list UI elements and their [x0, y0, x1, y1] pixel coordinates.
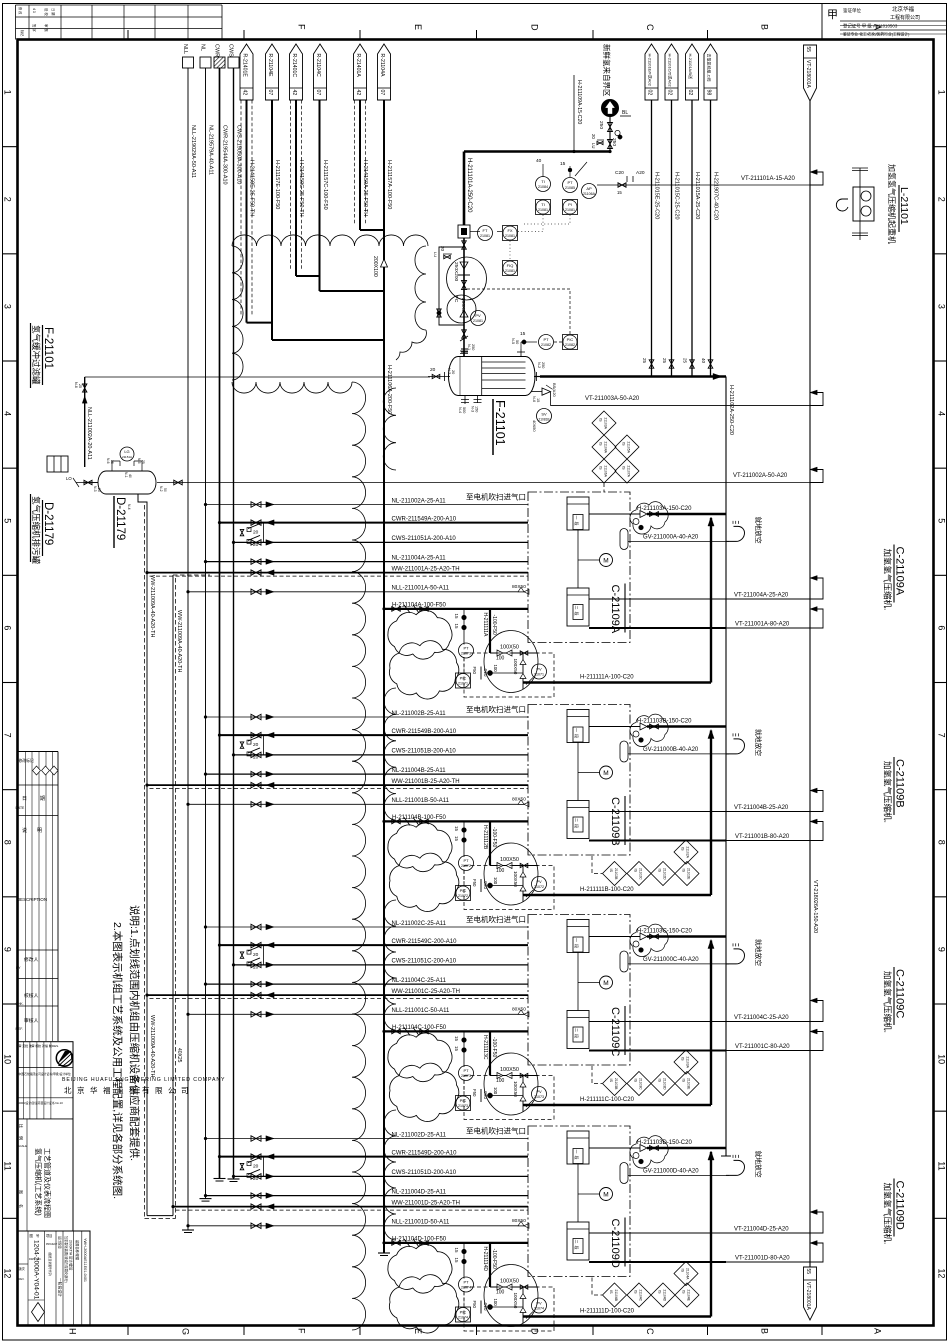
revision cloud module C	[388, 1033, 538, 1122]
svg-text:4 3: 4 3	[32, 8, 36, 13]
instrument PT-21085	[563, 178, 578, 193]
svg-text:NL-211004D-25-A11: NL-211004D-25-A11	[392, 1189, 447, 1195]
svg-text:42: 42	[291, 90, 297, 96]
auxiliary dashed box module A	[464, 653, 554, 697]
compressor module C-21109A	[0, 0, 1, 1]
svg-text:100X50: 100X50	[513, 659, 518, 675]
svg-text:IS: IS	[599, 418, 603, 422]
svg-text:21081: 21081	[505, 234, 515, 238]
svg-text:200X100: 200X100	[372, 256, 378, 277]
svg-text:F50: F50	[472, 1089, 477, 1097]
svg-text:F50: F50	[472, 1301, 477, 1309]
svg-text:IS: IS	[609, 1079, 613, 1083]
svg-text:F-21101: F-21101	[42, 327, 54, 369]
svg-text:15: 15	[454, 614, 459, 620]
svg-text:LU: LU	[591, 143, 596, 149]
reducer 80X50 module B	[512, 797, 529, 807]
local vent hook C	[726, 939, 763, 966]
svg-text:10: 10	[937, 1054, 947, 1064]
svg-text:21072: 21072	[461, 864, 471, 868]
svg-text:21084: 21084	[538, 185, 548, 189]
svg-text:FIQ: FIQ	[507, 263, 514, 268]
pipe from R-21401A	[355, 100, 385, 230]
motor M D	[578, 1188, 613, 1201]
relief SV-21081B	[531, 383, 557, 432]
pipe NLL-211001B-50-A11	[187, 798, 529, 807]
svg-text:25: 25	[683, 358, 688, 364]
svg-text:21073: 21073	[461, 1074, 471, 1078]
svg-text:100: 100	[496, 1078, 505, 1084]
svg-text:一: 一	[574, 516, 579, 520]
pipe WW-211001C-25-A20-TH	[146, 989, 529, 999]
auxiliary dashed box module C	[464, 1076, 554, 1120]
svg-text:IS: IS	[681, 1057, 685, 1061]
vessel D-21179 tag	[114, 496, 126, 548]
svg-text:N-1: N-1	[124, 472, 128, 478]
svg-text:4: 4	[937, 411, 947, 416]
svg-text:80X50: 80X50	[512, 1007, 526, 1013]
instrument PT-21083 loop	[520, 331, 537, 349]
cloud at discharge valve D	[630, 1136, 668, 1168]
pipe VT-211001B-80-A20	[589, 819, 823, 840]
svg-text:C-21109A: C-21109A	[894, 547, 906, 596]
svg-text:21081: 21081	[565, 208, 575, 212]
svg-text:20: 20	[430, 367, 436, 373]
svg-text:21102D: 21102D	[663, 868, 667, 880]
svg-text:H-211111D-100-C20: H-211111D-100-C20	[580, 1309, 635, 1315]
svg-text:21104A: 21104A	[686, 1268, 690, 1280]
svg-text:C-21109D: C-21109D	[609, 1219, 621, 1268]
svg-text:25: 25	[97, 488, 101, 492]
svg-text:21081B: 21081B	[539, 418, 550, 422]
flange break to drum	[460, 336, 468, 352]
fresh hydrogen battery limit arrow	[602, 44, 632, 117]
instrument PV-21073	[526, 1087, 547, 1108]
svg-text:21103A: 21103A	[686, 1057, 690, 1069]
svg-text:40X25: 40X25	[176, 1048, 182, 1063]
svg-text:21081: 21081	[473, 319, 483, 323]
svg-text:R-21104C: R-21104C	[315, 54, 321, 78]
cooling water bypass valves module A	[240, 523, 263, 548]
inlet valves	[591, 117, 622, 154]
drum nozzles	[428, 338, 545, 413]
revision cloud module A	[388, 610, 538, 699]
svg-text:21074: 21074	[461, 1286, 471, 1290]
svg-text:比: 比	[19, 1124, 25, 1128]
utility header NLL	[182, 44, 194, 68]
svg-text:R-21401A: R-21401A	[355, 54, 361, 78]
revision cloud module D	[388, 1244, 538, 1333]
hoist L-21101	[836, 168, 874, 240]
svg-text:IS: IS	[682, 1079, 686, 1083]
svg-text:21082: 21082	[541, 343, 551, 347]
svg-text:2000KT/A 设计/建设: 2000KT/A 设计/建设	[69, 1240, 74, 1271]
svg-text:PI: PI	[568, 202, 572, 207]
cloud at discharge valve C	[630, 924, 668, 956]
instrument PV-21072	[526, 877, 547, 898]
unit label C-21109C right	[883, 967, 906, 1033]
reducer 80X50 module D	[512, 1218, 529, 1228]
svg-text:PT: PT	[463, 858, 469, 863]
svg-text:21082: 21082	[565, 343, 575, 347]
utility header CWR	[214, 44, 226, 68]
svg-text:IS: IS	[682, 1290, 686, 1294]
svg-text:NL-211002A-25-A11: NL-211002A-25-A11	[392, 498, 447, 504]
svg-text:PT: PT	[543, 337, 549, 342]
pipe NL-211002C-25-A11	[204, 921, 528, 930]
pipe from R-21401C	[291, 100, 320, 276]
svg-text:AP: AP	[586, 186, 592, 191]
pipe NL-211002D-25-A11	[204, 1132, 528, 1141]
svg-text:250X200: 250X200	[453, 262, 459, 282]
svg-text:名: 名	[19, 1204, 25, 1208]
svg-text:北京华福: 北京华福	[892, 5, 915, 13]
pipe H-211104C-100-F50	[383, 1025, 529, 1036]
svg-text:5: 5	[937, 518, 947, 523]
revision strip table bottom-left	[16, 752, 59, 1042]
svg-text:VT-211101A-15-A20: VT-211101A-15-A20	[741, 176, 795, 182]
pipe NL-211002A-25-A11	[204, 498, 528, 507]
svg-text:号: 号	[36, 1233, 40, 1238]
svg-text:CWS-211051A-200-A10: CWS-211051A-200-A10	[392, 536, 457, 542]
svg-text:100X50: 100X50	[500, 645, 519, 651]
D-21179 bottom drain	[124, 472, 138, 510]
svg-text:IS: IS	[658, 1079, 662, 1083]
svg-text:NLL-211002A-20-A11: NLL-211002A-20-A11	[86, 407, 92, 460]
svg-text:加氢氢气压缩机.: 加氢氢气压缩机.	[883, 971, 893, 1033]
svg-text:15: 15	[617, 190, 622, 195]
motor M A	[578, 554, 613, 567]
safety diamonds group F-21101	[592, 411, 639, 492]
svg-text:中国石化集团公司设计证书(甲级)设计单位: 中国石化集团公司设计证书(甲级)设计单位	[19, 1072, 71, 1076]
WW drain riser 2	[173, 575, 210, 1219]
pipe H-211103A-150-C20	[589, 506, 726, 518]
svg-text:100X50: 100X50	[500, 857, 519, 863]
svg-text:段: 段	[574, 612, 580, 616]
svg-text:7: 7	[3, 733, 13, 738]
svg-text:FX: FX	[507, 228, 512, 233]
svg-text:PT: PT	[463, 646, 469, 651]
cooling water bypass valves module B	[240, 735, 263, 760]
svg-text:150: 150	[475, 406, 479, 412]
svg-text:IS: IS	[634, 869, 638, 873]
svg-text:20: 20	[253, 742, 259, 748]
svg-text:(图纸目录图号代字): (图纸目录图号代字)	[48, 1252, 52, 1276]
svg-text:55: 55	[805, 47, 811, 53]
svg-text:VT-218001A: VT-218001A	[805, 60, 811, 88]
pipe VT-211003A-50-A20	[551, 390, 824, 406]
svg-text:100X50: 100X50	[513, 1081, 518, 1097]
svg-text:H-214159E-25-F50-TH: H-214159E-25-F50-TH	[249, 160, 255, 216]
machine tag C-21109B	[609, 796, 625, 846]
svg-text:至电机吹扫进气口: 至电机吹扫进气口	[466, 492, 526, 502]
flow orifice FE-21081	[458, 225, 480, 238]
pipe NL-211004D-25-A11	[204, 1189, 528, 1198]
pipe NLL-211002A F-21101 to D-21179	[74, 377, 446, 467]
svg-text:VT-211004D-25-A20: VT-211004D-25-A20	[734, 1227, 789, 1233]
svg-text:图: 图	[30, 1234, 34, 1238]
svg-text:21103B: 21103B	[614, 1078, 618, 1090]
svg-text:VT-218026A-150-A20: VT-218026A-150-A20	[812, 880, 818, 933]
svg-text:NL-219579A-40-A11: NL-219579A-40-A11	[208, 125, 214, 175]
svg-text:E: E	[413, 24, 423, 30]
drop line labels	[654, 172, 719, 220]
svg-text:21103D: 21103D	[663, 1078, 667, 1090]
svg-text:DATE: DATE	[16, 806, 26, 810]
svg-text:H-211111A-100-C20: H-211111A-100-C20	[580, 675, 634, 681]
VT header pipe	[810, 101, 818, 1267]
pipe H-211111A-100-C20	[523, 517, 714, 683]
svg-text:VT-211002A-50-A20: VT-211002A-50-A20	[733, 473, 788, 479]
pipe H-211103D-150-C20	[589, 1140, 726, 1152]
CWR header pipe	[214, 68, 226, 1181]
svg-text:21081: 21081	[505, 269, 515, 273]
cooling water bypass valves module D	[240, 1157, 263, 1182]
instrument PIC-21082	[563, 335, 578, 350]
NLL header pipe	[182, 68, 194, 1233]
svg-text:H-211113C: H-211113C	[482, 1035, 488, 1060]
svg-text:TI: TI	[541, 179, 545, 184]
svg-text:H-211101A-250-C20: H-211101A-250-C20	[466, 158, 472, 213]
svg-text:签 字: 签 字	[32, 24, 37, 32]
svg-text:鉴证单位: 鉴证单位	[843, 7, 861, 14]
svg-text:2004(设计)建设项目设计证书 No.10: 2004(设计)建设项目设计证书 No.10	[19, 1101, 64, 1105]
svg-text:NL: NL	[200, 44, 206, 51]
svg-text:M: M	[603, 558, 608, 565]
svg-text:B: B	[759, 24, 769, 30]
svg-text:加氢裂化装置(渣油加氢裂化部分): 加氢裂化装置(渣油加氢裂化部分)	[64, 1236, 69, 1283]
flag line labels	[249, 160, 393, 217]
svg-text:IS: IS	[658, 869, 662, 873]
svg-text:校 对: 校 对	[38, 1043, 45, 1048]
svg-text:21072: 21072	[458, 894, 468, 898]
svg-text:07: 07	[379, 90, 385, 96]
svg-text:15: 15	[454, 1046, 459, 1052]
pipe CWS-211051B-200-A10	[232, 749, 528, 758]
svg-text:二: 二	[574, 818, 579, 822]
svg-text:PV: PV	[475, 313, 481, 318]
svg-text:9: 9	[3, 947, 13, 952]
svg-text:40X50: 40X50	[532, 420, 537, 432]
svg-text:80X50: 80X50	[512, 584, 526, 590]
svg-text:修 改: 修 改	[18, 7, 23, 15]
svg-text:二: 二	[574, 1240, 579, 1244]
package boundary C-21109B	[528, 705, 630, 856]
svg-text:21081: 21081	[538, 208, 548, 212]
svg-text:PT: PT	[567, 180, 573, 185]
svg-text:N-5: N-5	[511, 338, 515, 344]
instrument branch PT-21071	[454, 609, 474, 688]
svg-text:明: 明	[37, 828, 42, 834]
svg-text:PT: PT	[463, 1068, 469, 1073]
svg-text:H: H	[67, 1328, 77, 1335]
svg-text:L-21101: L-21101	[898, 187, 910, 225]
svg-text:100: 100	[493, 877, 498, 885]
flag VT-218001A bottom	[804, 1267, 817, 1320]
svg-text:H-21101E/F送A02: H-21101E/F送A02	[647, 54, 653, 87]
svg-text:IS: IS	[609, 1290, 613, 1294]
svg-text:IS: IS	[609, 869, 613, 873]
gauge LG-21151A	[106, 447, 145, 471]
svg-text:98: 98	[706, 90, 712, 96]
svg-text:H-211111C-100-C20: H-211111C-100-C20	[580, 1097, 635, 1103]
instrument branch PT-21074	[454, 1243, 474, 1322]
pipe VT-211004D-25-A20	[589, 1210, 823, 1233]
svg-text:至电机吹扫进气口: 至电机吹扫进气口	[466, 914, 526, 924]
svg-text:15: 15	[454, 1036, 459, 1042]
revision cloud module B	[388, 823, 538, 912]
package boundary C-21109C	[528, 915, 630, 1066]
svg-text:设计阶段: 设计阶段	[58, 1236, 63, 1250]
svg-text:50: 50	[163, 488, 167, 492]
svg-text:H-211103B-150-C20: H-211103B-150-C20	[637, 719, 692, 725]
pipe from R-21401E	[241, 100, 272, 323]
svg-text:21102E: 21102E	[687, 868, 691, 880]
svg-text:例: 例	[19, 1136, 25, 1140]
svg-text:至电机吹扫进气口: 至电机吹扫进气口	[466, 1126, 526, 1136]
instrument FX-21081	[503, 226, 518, 241]
svg-text:1204-2000A-Y04-01: 1204-2000A-Y04-01	[33, 1240, 40, 1300]
svg-text:M: M	[603, 980, 608, 987]
svg-text:02: 02	[667, 90, 673, 96]
svg-text:修改标记: 修改标记	[19, 758, 34, 763]
svg-text:说: 说	[22, 827, 27, 834]
svg-text:21104E: 21104E	[687, 1290, 691, 1302]
svg-text:F: F	[297, 24, 307, 30]
svg-text:VT-211001A-80-A20: VT-211001A-80-A20	[735, 622, 790, 628]
svg-text:21104D: 21104D	[663, 1290, 667, 1302]
svg-text:21103E: 21103E	[687, 1078, 691, 1090]
pipe H-211104A-100-F50	[383, 602, 529, 613]
svg-text:9: 9	[937, 947, 947, 952]
compressor cylinder stage1 A	[567, 497, 589, 530]
pipe H-211101A-250-C20	[464, 152, 610, 226]
svg-text:段: 段	[574, 944, 580, 948]
svg-text:工艺管道及仪表流程图: 工艺管道及仪表流程图	[43, 1148, 52, 1218]
svg-text:25: 25	[662, 358, 667, 364]
compressor module C-21109C	[0, 0, 1, 1]
svg-text:R-21401C: R-21401C	[291, 54, 297, 78]
svg-text:审核人: 审核人	[24, 1017, 39, 1024]
svg-text:加氢氢气压缩机.: 加氢氢气压缩机.	[883, 549, 893, 611]
pipe CWR-211549A-200-A10	[218, 516, 528, 525]
svg-text:DES.: DES.	[52, 1044, 59, 1048]
title block bottom-left	[18, 1042, 91, 1326]
svg-text:D: D	[529, 24, 539, 31]
instrument branch PT-21073	[454, 1031, 474, 1110]
flag H-21101A/B	[686, 44, 699, 100]
svg-text:登记证号 甲 级 A111010503: 登记证号 甲 级 A111010503	[843, 23, 898, 30]
vent line GV-211000B	[620, 731, 729, 762]
pipe VT-211004A-25-A20	[589, 576, 823, 599]
pipe to VT-211101A	[597, 170, 823, 195]
svg-text:15: 15	[454, 624, 459, 630]
svg-text:H-211112B: H-211112B	[482, 825, 488, 850]
svg-text:02: 02	[687, 90, 693, 96]
svg-text:H-211015A-25-C20: H-211015A-25-C20	[694, 172, 700, 219]
flag R-21104E	[266, 44, 279, 100]
svg-text:项目: 项目	[46, 1234, 52, 1238]
machine tag C-21109C	[609, 1006, 625, 1056]
3-cell box marker	[47, 456, 68, 472]
svg-text:H-211111B-100-C20: H-211111B-100-C20	[580, 887, 634, 893]
svg-text:B: B	[759, 1328, 769, 1334]
notes text	[111, 905, 141, 1199]
svg-text:25: 25	[78, 384, 82, 388]
svg-text:N-4: N-4	[127, 504, 131, 510]
svg-text:21104B: 21104B	[614, 1290, 618, 1302]
svg-text:21102A: 21102A	[686, 847, 690, 859]
svg-text:就地放空: 就地放空	[754, 1151, 763, 1178]
crankshaft line D	[577, 1164, 579, 1222]
svg-text:设 校: 设 校	[44, 8, 49, 16]
vessel F-21101	[449, 357, 536, 396]
svg-text:20: 20	[253, 1164, 259, 1170]
unit label C-21109D right	[883, 1179, 906, 1245]
svg-text:2: 2	[937, 197, 947, 202]
svg-text:一阶段设计: 一阶段设计	[58, 1278, 63, 1297]
pipe CWR-211549C-200-A10	[218, 939, 528, 948]
svg-text:NLL-211001D-50-A11: NLL-211001D-50-A11	[392, 1220, 450, 1226]
svg-text:07: 07	[315, 90, 321, 96]
control valve station 250X200	[447, 238, 487, 356]
svg-text:编 制: 编 制	[45, 1043, 52, 1048]
svg-text:CWS-211051D-200-A10: CWS-211051D-200-A10	[392, 1170, 457, 1176]
svg-text:7: 7	[937, 733, 947, 738]
svg-text:250: 250	[598, 121, 604, 129]
svg-text:PROJECT: PROJECT	[46, 1243, 58, 1246]
svg-text:H-211103A-150-C20: H-211103A-150-C20	[637, 506, 692, 512]
svg-text:VT-211004C-25-A20: VT-211004C-25-A20	[734, 1015, 789, 1021]
svg-text:15: 15	[454, 826, 459, 832]
svg-text:21104A: 21104A	[604, 442, 608, 454]
svg-text:50: 50	[515, 340, 519, 344]
svg-text:REF.: REF.	[16, 1027, 23, 1031]
svg-text:N-6: N-6	[532, 396, 536, 402]
svg-text:100: 100	[493, 665, 498, 673]
svg-text:WW-211001C-25-A20-TH: WW-211001C-25-A20-TH	[392, 989, 460, 995]
svg-text:LU: LU	[433, 252, 438, 257]
svg-text:段: 段	[574, 522, 580, 526]
svg-text:21106A: 21106A	[583, 192, 596, 196]
svg-text:H-221907C-40-C20: H-221907C-40-C20	[713, 172, 719, 220]
svg-text:20: 20	[253, 530, 259, 536]
svg-text:FC: FC	[453, 296, 459, 303]
svg-text:15: 15	[454, 1258, 459, 1264]
NL header pipe	[200, 68, 212, 1201]
svg-text:DESCRIPTION: DESCRIPTION	[17, 897, 47, 902]
instrument branch PT-21072	[454, 821, 474, 900]
discharge header to riser	[540, 373, 734, 1156]
svg-text:N-2: N-2	[537, 362, 541, 368]
pipe NLL-211001D-50-A11	[187, 1220, 529, 1229]
svg-text:-100-F50: -100-F50	[491, 1037, 497, 1058]
instrument PV-21074	[526, 1298, 547, 1319]
svg-text:装置名称/规模: 装置名称/规模	[75, 1240, 80, 1261]
auxiliary dashed box module B	[464, 866, 554, 910]
hoist tag	[887, 164, 910, 244]
svg-text:VT-211004A-25-A20: VT-211004A-25-A20	[734, 593, 789, 599]
svg-text:F-21101: F-21101	[493, 400, 507, 446]
svg-text:A: A	[872, 1328, 882, 1334]
flag R-21401C	[290, 44, 303, 100]
svg-text:500: 500	[462, 407, 466, 413]
flag R-21104A	[378, 44, 391, 100]
svg-text:至电机吹扫进气口: 至电机吹扫进气口	[466, 704, 526, 714]
svg-text:6: 6	[937, 625, 947, 630]
svg-text:段: 段	[574, 824, 580, 828]
svg-text:NL-211002B-25-A11: NL-211002B-25-A11	[392, 711, 447, 717]
